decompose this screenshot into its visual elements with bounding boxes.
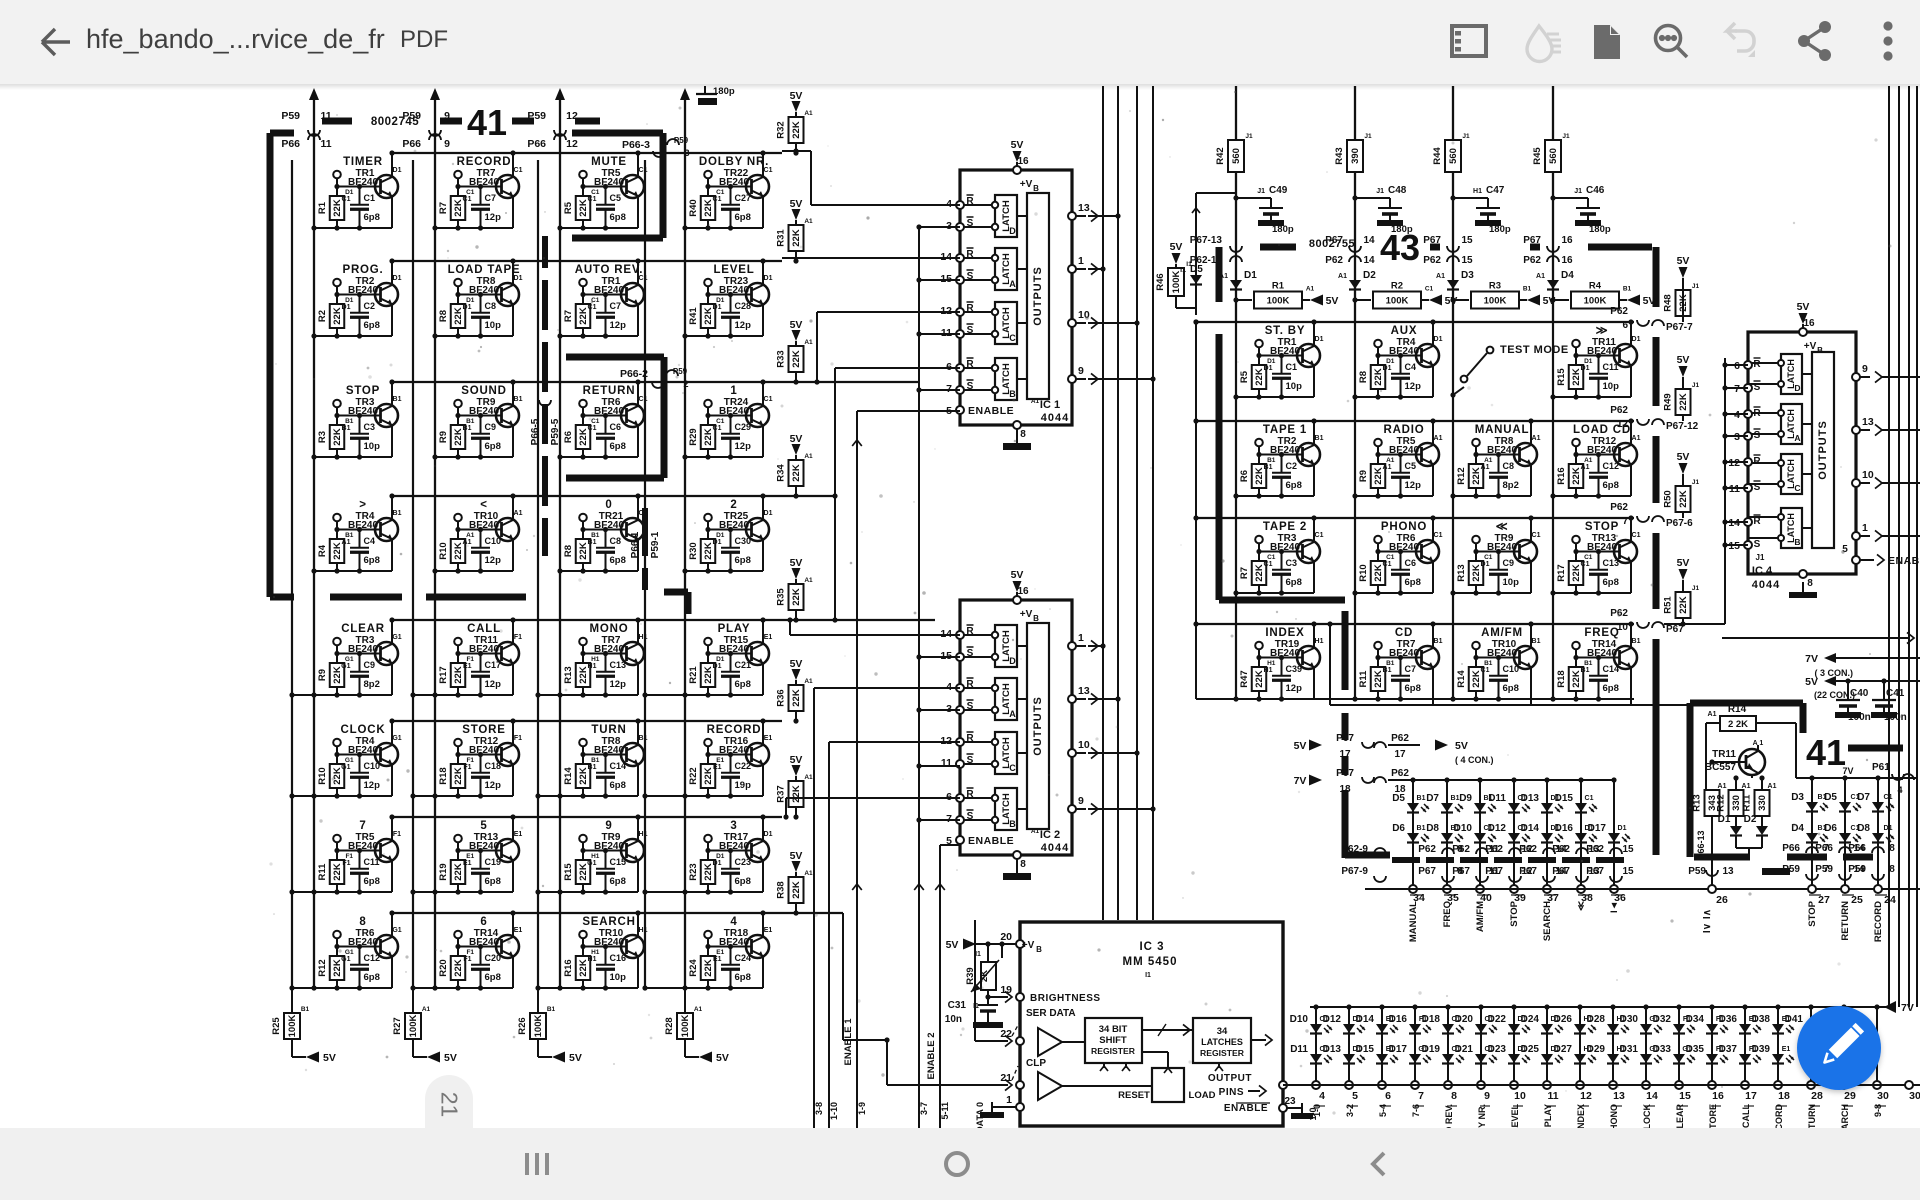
svg-text:R14: R14 [1728,704,1747,715]
svg-text:A: A [1009,709,1016,719]
svg-text:B1: B1 [1523,286,1532,293]
svg-text:D17: D17 [1389,1044,1408,1055]
svg-text:C1: C1 [1286,362,1298,372]
svg-text:R36: R36 [776,689,787,706]
svg-text:9: 9 [1484,1090,1490,1102]
svg-text:J1: J1 [1756,553,1765,562]
svg-text:23: 23 [1284,1096,1296,1107]
svg-text:R23: R23 [688,863,699,880]
svg-text:10: 10 [1617,622,1629,633]
svg-text:13: 13 [1862,416,1874,428]
svg-text:C15: C15 [610,857,627,867]
svg-text:C10: C10 [364,761,381,771]
svg-text:4: 4 [1897,785,1902,795]
svg-text:P66: P66 [527,138,546,150]
svg-text:R: R [966,196,974,207]
svg-text:7V: 7V [1901,1002,1914,1014]
svg-text:7V: 7V [1805,653,1818,665]
svg-text:25: 25 [1851,894,1863,906]
svg-text:560: 560 [1448,148,1459,164]
svg-text:C4: C4 [1405,362,1417,372]
svg-text:TEST MODE: TEST MODE [1500,344,1569,356]
svg-text:E1: E1 [764,735,773,742]
svg-text:D1: D1 [514,275,523,282]
svg-text:G1: G1 [392,634,401,641]
svg-text:1: 1 [730,385,737,397]
svg-text:15: 15 [1461,235,1473,246]
svg-text:D1: D1 [764,510,773,517]
svg-text:CALL: CALL [1741,1104,1751,1128]
svg-text:16: 16 [1017,156,1029,167]
svg-text:D1: D1 [1434,336,1443,343]
svg-text:H1: H1 [588,663,597,670]
svg-text:R10: R10 [438,542,449,559]
svg-text:R38: R38 [776,881,787,898]
svg-text:C: C [1009,763,1016,773]
svg-text:SOUND: SOUND [461,385,507,397]
svg-text:5V: 5V [1455,740,1468,752]
svg-text:24: 24 [1884,894,1896,906]
svg-text:5V: 5V [1643,295,1656,307]
svg-text:100K: 100K [1386,296,1409,307]
svg-text:D38: D38 [1752,1014,1771,1025]
svg-text:G1: G1 [587,860,596,867]
svg-text:D39: D39 [1752,1044,1771,1055]
svg-text:D1: D1 [764,275,773,282]
svg-text:C3: C3 [364,422,376,432]
svg-text:C: C [1794,483,1800,493]
svg-text:B: B [1033,184,1039,193]
svg-text:C1: C1 [1581,561,1590,568]
svg-text:22K: 22K [791,350,802,368]
svg-text:13: 13 [1078,685,1090,697]
svg-text:9: 9 [605,820,612,832]
svg-text:P62: P62 [1452,844,1470,855]
svg-text:B: B [1036,945,1042,954]
svg-text:PLAY: PLAY [718,623,751,635]
svg-text:<: < [480,499,488,511]
svg-text:J1: J1 [1376,188,1384,195]
svg-text:+V: +V [1804,341,1817,352]
svg-text:P62: P62 [1391,768,1409,779]
svg-text:330: 330 [1757,795,1768,811]
svg-text:5V: 5V [1294,740,1307,752]
svg-text:15: 15 [1679,1090,1691,1102]
svg-text:5V: 5V [790,850,803,862]
svg-text:D3: D3 [1461,270,1474,281]
svg-text:ENABLE: ENABLE [968,405,1014,417]
svg-text:J1: J1 [1872,713,1880,720]
svg-text:FREQ: FREQ [1442,901,1453,927]
svg-text:A1: A1 [1031,398,1040,405]
svg-text:D29: D29 [1587,1044,1606,1055]
svg-text:STOP: STOP [1807,900,1818,926]
svg-text:R10: R10 [1358,564,1369,581]
svg-text:C1: C1 [764,167,773,174]
svg-text:R6: R6 [1239,470,1250,482]
svg-text:ENABLE: ENABLE [1224,1103,1268,1114]
svg-text:8: 8 [1889,864,1895,875]
svg-text:F1: F1 [514,735,522,742]
svg-text:6p8: 6p8 [1503,683,1519,694]
svg-text:D: D [1009,656,1016,666]
svg-text:D17: D17 [1588,823,1607,834]
svg-text:6p8: 6p8 [735,972,751,983]
svg-text:C22: C22 [735,761,752,771]
svg-text:B1: B1 [1623,286,1632,293]
svg-text:D1: D1 [1244,270,1257,281]
svg-text:R46: R46 [1155,273,1166,290]
svg-text:D6: D6 [1824,823,1837,834]
svg-text:D7: D7 [1857,792,1870,803]
svg-text:P67-12: P67-12 [1666,421,1699,432]
svg-text:J1: J1 [1692,283,1700,290]
svg-text:6p8: 6p8 [610,555,626,566]
svg-text:13: 13 [1613,1090,1625,1102]
svg-text:P61: P61 [1872,762,1890,773]
svg-text:6p8: 6p8 [1405,577,1421,588]
svg-text:22K: 22K [791,689,802,707]
svg-text:A1: A1 [1718,783,1727,790]
svg-text:180p: 180p [1272,224,1294,235]
svg-text:( 3 CON.): ( 3 CON.) [1814,668,1853,678]
svg-text:D1: D1 [1481,561,1490,568]
svg-text:A1: A1 [1436,273,1445,280]
svg-text:C7: C7 [485,193,497,203]
svg-text:TURN: TURN [591,724,626,736]
svg-text:P62: P62 [1423,255,1441,266]
svg-text:5V: 5V [1326,295,1339,307]
svg-text:D9: D9 [1459,793,1472,804]
svg-text:C1: C1 [1434,532,1443,539]
svg-text:J1: J1 [1692,585,1700,592]
svg-text:+V: +V [1020,609,1033,620]
svg-text:B1: B1 [514,396,523,403]
svg-text:R16: R16 [1556,467,1567,484]
svg-text:R9: R9 [1358,470,1369,482]
svg-text:P59-1: P59-1 [650,531,661,558]
svg-text:B1: B1 [639,735,648,742]
svg-text:S: S [1754,382,1761,393]
svg-text:P66-3: P66-3 [622,139,650,151]
svg-text:P62: P62 [1610,405,1628,416]
svg-text:D34: D34 [1686,1014,1705,1025]
svg-text:MM 5450: MM 5450 [1123,956,1178,968]
svg-text:6p8: 6p8 [735,679,751,690]
svg-text:R3: R3 [317,431,328,443]
svg-text:6p8: 6p8 [485,876,501,887]
svg-text:22K: 22K [791,464,802,482]
svg-text:B1: B1 [342,425,351,432]
svg-text:8002745: 8002745 [371,116,419,128]
svg-text:100K: 100K [1584,296,1607,307]
svg-text:D6: D6 [1392,823,1405,834]
svg-text:R8: R8 [563,545,574,557]
svg-text:BRIGHTNESS: BRIGHTNESS [1030,993,1101,1004]
svg-text:B: B [1009,389,1016,399]
svg-text:22K: 22K [1678,393,1689,411]
svg-text:CLOCK: CLOCK [341,724,386,736]
svg-text:12: 12 [1617,419,1629,430]
svg-text:22K: 22K [1678,490,1689,508]
svg-text:I1: I1 [1180,267,1186,274]
svg-text:P62: P62 [1610,306,1628,317]
svg-text:9: 9 [1078,795,1084,807]
svg-text:180p: 180p [1489,224,1511,235]
svg-text:AUTO REV.: AUTO REV. [575,264,644,276]
svg-text:12p: 12p [735,320,752,331]
svg-text:B: B [1794,537,1800,547]
svg-text:8p2: 8p2 [364,679,380,690]
svg-text:6p8: 6p8 [485,441,501,452]
svg-text:C10: C10 [1503,664,1520,674]
svg-text:J1: J1 [1692,479,1700,486]
svg-text:100K: 100K [287,1015,298,1038]
svg-text:D1: D1 [1264,365,1273,372]
svg-text:LOAD: LOAD [1189,1090,1216,1101]
svg-text:7V: 7V [1294,775,1307,787]
svg-text:10: 10 [1514,1090,1526,1102]
svg-text:C1: C1 [1383,561,1392,568]
svg-text:R7: R7 [438,202,449,214]
svg-text:C: C [1009,333,1016,343]
svg-text:B1: B1 [1417,825,1426,832]
svg-text:A: A [1794,433,1800,443]
svg-text:IC 3: IC 3 [1139,941,1164,953]
svg-text:D1: D1 [463,304,472,311]
svg-text:J1: J1 [1562,133,1570,140]
svg-text:R51: R51 [1663,596,1674,614]
svg-text:B: B [1033,614,1039,623]
svg-text:R31: R31 [776,229,787,247]
svg-text:R19: R19 [438,863,449,880]
svg-text:E1: E1 [514,927,523,934]
svg-text:R5: R5 [1239,370,1250,383]
svg-text:R11: R11 [317,863,328,881]
svg-text:A1: A1 [1481,464,1490,471]
svg-text:A1: A1 [1219,273,1228,280]
svg-text:R5: R5 [563,201,574,214]
svg-text:5V: 5V [716,1052,729,1064]
svg-text:C18: C18 [485,761,502,771]
svg-text:C10: C10 [485,536,502,546]
svg-text:100K: 100K [533,1015,544,1038]
svg-text:C7: C7 [1405,664,1417,674]
svg-text:C23: C23 [735,857,752,867]
svg-text:IC 2: IC 2 [1040,829,1060,841]
svg-text:5V: 5V [569,1052,582,1064]
svg-text:R13: R13 [1692,794,1703,811]
svg-text:6p8: 6p8 [364,320,380,331]
svg-text:5V: 5V [946,939,959,951]
svg-text:0: 0 [605,499,612,511]
svg-text:D20: D20 [1455,1014,1474,1025]
svg-text:22K: 22K [791,881,802,899]
svg-text:S: S [1754,430,1761,441]
svg-text:AUX: AUX [1391,325,1418,337]
svg-text:D33: D33 [1653,1044,1672,1055]
svg-text:P66: P66 [281,138,300,150]
svg-text:D1: D1 [713,860,722,867]
svg-text:R20: R20 [438,959,449,976]
svg-text:LOAD TAPE: LOAD TAPE [448,264,521,276]
svg-text:C8: C8 [1503,461,1515,471]
svg-text:C1: C1 [1884,794,1893,801]
svg-text:2 2K: 2 2K [1728,719,1748,730]
svg-text:R4: R4 [317,544,328,557]
svg-text:6p8: 6p8 [1603,683,1619,694]
svg-text:21: 21 [1000,1072,1012,1084]
svg-text:C1: C1 [713,196,722,203]
svg-text:D14: D14 [1356,1014,1375,1025]
svg-text:A1: A1 [804,339,813,346]
svg-text:R10: R10 [317,767,328,784]
svg-text:D7: D7 [1426,793,1439,804]
svg-text:1: 1 [1006,1094,1012,1106]
svg-text:C9: C9 [1503,558,1515,568]
svg-text:A1: A1 [804,577,813,584]
svg-text:A1: A1 [1383,464,1392,471]
svg-text:6p8: 6p8 [364,555,380,566]
svg-text:R12: R12 [1456,467,1467,484]
svg-text:P66-1: P66-1 [630,531,641,558]
svg-text:ENABLE 2: ENABLE 2 [926,1033,937,1080]
svg-text:5V: 5V [790,433,803,445]
svg-text:P66-2: P66-2 [620,368,648,380]
svg-text:R7: R7 [563,310,574,322]
svg-text:R2: R2 [1391,281,1403,292]
svg-text:C2: C2 [364,301,376,311]
svg-text:1: 1 [1862,522,1868,534]
svg-text:R1: R1 [1272,281,1285,292]
svg-text:D: D [1794,383,1800,393]
svg-text:CD: CD [1395,627,1413,639]
svg-text:SHIFT: SHIFT [1099,1035,1127,1046]
svg-text:5: 5 [480,820,487,832]
svg-text:G1: G1 [341,764,350,771]
svg-text:6p8: 6p8 [364,212,380,223]
svg-text:A: A [1009,279,1016,289]
svg-text:R17: R17 [1556,564,1567,581]
svg-text:16: 16 [1803,318,1815,329]
svg-text:P67-13: P67-13 [1190,235,1223,246]
svg-text:6: 6 [480,916,487,928]
svg-text:LATCHES: LATCHES [1201,1037,1243,1047]
svg-text:TAPE 2: TAPE 2 [1263,521,1307,533]
svg-text:FREQ: FREQ [1584,627,1619,639]
svg-text:E1: E1 [463,860,472,867]
svg-text:8: 8 [1807,578,1813,589]
svg-text:P62: P62 [1391,733,1409,744]
svg-text:D1: D1 [1315,336,1324,343]
svg-text:C1: C1 [588,196,597,203]
svg-text:S: S [967,381,974,392]
svg-text:C9: C9 [485,422,497,432]
svg-text:41: 41 [467,102,507,143]
svg-text:8: 8 [1020,429,1026,440]
svg-text:J1: J1 [1692,382,1700,389]
svg-text:A1: A1 [1338,273,1347,280]
svg-text:R27: R27 [392,1017,403,1034]
svg-text:P59: P59 [673,367,688,376]
svg-text:15: 15 [1622,866,1634,877]
svg-text:13: 13 [1078,202,1090,214]
svg-text:S: S [967,218,974,229]
svg-text:R4: R4 [1589,281,1602,292]
svg-text:5V: 5V [1011,569,1024,581]
svg-text:S: S [967,271,974,282]
svg-text:R34: R34 [776,464,787,482]
svg-text:J1: J1 [1364,133,1372,140]
svg-text:C1: C1 [639,275,648,282]
svg-text:D23: D23 [1488,1044,1507,1055]
svg-text:C46: C46 [1586,185,1605,196]
svg-text:C1: C1 [1532,532,1541,539]
svg-text:D14: D14 [1521,823,1540,834]
svg-text:R37: R37 [776,785,787,802]
svg-text:PINS: PINS [1219,1087,1244,1098]
svg-text:30: 30 [1909,1090,1920,1102]
svg-text:5V: 5V [1011,139,1024,151]
svg-text:R: R [966,303,974,314]
svg-text:( 4 CON.): ( 4 CON.) [1455,755,1494,765]
svg-text:6: 6 [1385,1090,1391,1102]
svg-text:E1: E1 [514,831,523,838]
svg-text:D15: D15 [1356,1044,1375,1055]
svg-text:6: 6 [1622,320,1628,331]
svg-text:R21: R21 [688,666,699,684]
svg-text:B1: B1 [393,396,402,403]
svg-text:8: 8 [1451,1090,1457,1102]
svg-text:5V: 5V [790,319,803,331]
svg-text:TURN: TURN [1807,1104,1817,1129]
svg-text:P67: P67 [1485,866,1503,877]
svg-text:B1: B1 [547,1006,556,1013]
svg-text:26: 26 [1716,894,1728,906]
svg-text:A1: A1 [1536,273,1545,280]
svg-text:P59: P59 [281,110,300,122]
svg-text:R2: R2 [317,310,328,322]
svg-text:6p8: 6p8 [364,972,380,983]
svg-text:E1: E1 [1782,1046,1791,1053]
svg-text:1-9: 1-9 [857,1102,867,1115]
svg-text:19p: 19p [735,780,752,791]
svg-text:12p: 12p [485,555,502,566]
svg-text:C24: C24 [735,953,752,963]
svg-text:4: 4 [730,916,737,928]
svg-text:P67: P67 [1586,866,1604,877]
svg-text:P62-9: P62-9 [1341,844,1368,855]
svg-text:D1: D1 [393,167,402,174]
svg-text:10p: 10p [485,320,502,331]
svg-text:D18: D18 [1422,1014,1441,1025]
svg-text:≪: ≪ [1496,521,1509,533]
svg-text:G1: G1 [341,956,350,963]
svg-text:R45: R45 [1532,147,1543,165]
svg-text:SEARCH: SEARCH [1542,901,1553,941]
svg-text:22K: 22K [791,229,802,247]
svg-text:5V: 5V [1677,255,1690,267]
svg-text:R1: R1 [317,201,328,214]
svg-text:R: R [966,679,974,690]
svg-text:P62: P62 [1418,844,1436,855]
svg-text:F1: F1 [342,860,350,867]
svg-text:R8: R8 [438,310,449,322]
svg-text:P67: P67 [1519,866,1537,877]
svg-text:12p: 12p [485,679,502,690]
svg-text:14: 14 [1363,235,1375,246]
svg-text:D36: D36 [1719,1014,1738,1025]
